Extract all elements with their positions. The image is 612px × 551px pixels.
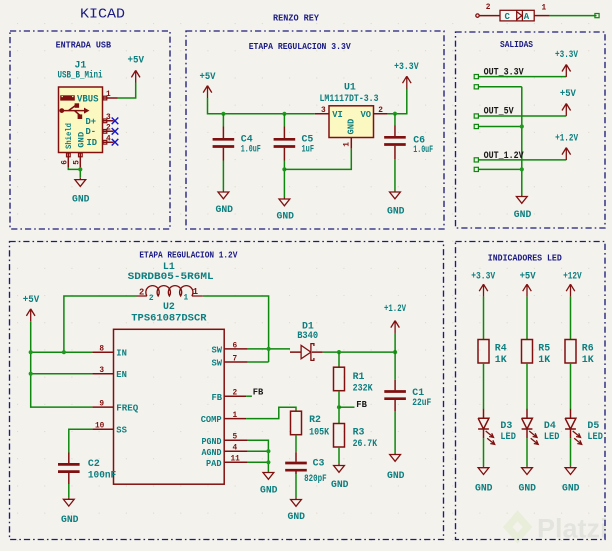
svg-text:+5V: +5V: [520, 270, 536, 281]
svg-text:1: 1: [193, 287, 198, 297]
svg-text:VBUS: VBUS: [77, 93, 99, 104]
svg-text:22uF: 22uF: [412, 397, 431, 408]
svg-text:D3: D3: [500, 420, 512, 431]
svg-text:1: 1: [233, 412, 238, 420]
svg-text:VI: VI: [332, 110, 343, 120]
svg-text:RENZO REY: RENZO REY: [273, 14, 320, 24]
svg-text:IN: IN: [116, 349, 127, 359]
svg-text:1: 1: [184, 295, 189, 303]
svg-text:KICAD: KICAD: [80, 7, 125, 23]
svg-text:C: C: [505, 12, 511, 22]
svg-text:LM1117DT-3.3: LM1117DT-3.3: [320, 93, 379, 104]
svg-text:4: 4: [106, 135, 111, 143]
svg-text:7: 7: [233, 355, 238, 363]
svg-text:SW: SW: [212, 359, 223, 369]
svg-text:ETAPA REGULACION 3.3V: ETAPA REGULACION 3.3V: [249, 42, 352, 52]
svg-text:GND: GND: [519, 482, 537, 493]
svg-text:6: 6: [62, 160, 70, 165]
svg-text:FB: FB: [212, 393, 223, 403]
svg-text:GND: GND: [61, 514, 79, 525]
svg-text:8: 8: [99, 346, 104, 354]
svg-text:232K: 232K: [353, 383, 373, 394]
svg-text:+5V: +5V: [200, 71, 216, 82]
svg-text:+3.3V: +3.3V: [555, 49, 578, 60]
svg-text:INDICADORES LED: INDICADORES LED: [488, 254, 562, 264]
svg-text:GND: GND: [277, 210, 295, 221]
svg-text:+5V: +5V: [560, 88, 576, 99]
svg-text:LED: LED: [500, 431, 516, 442]
svg-text:3: 3: [321, 107, 326, 115]
svg-text:LED: LED: [544, 431, 560, 442]
svg-text:R6: R6: [582, 343, 594, 354]
svg-text:9: 9: [99, 401, 104, 409]
svg-text:ID: ID: [87, 138, 98, 148]
svg-text:COMP: COMP: [201, 415, 222, 425]
svg-text:GND: GND: [331, 479, 349, 490]
svg-text:2: 2: [233, 389, 238, 397]
svg-text:GND: GND: [387, 205, 405, 216]
svg-text:A: A: [524, 12, 530, 22]
svg-text:GND: GND: [260, 485, 278, 496]
svg-text:GND: GND: [347, 119, 357, 135]
svg-text:R3: R3: [353, 426, 365, 437]
svg-text:2: 2: [378, 107, 383, 115]
svg-text:820pF: 820pF: [304, 473, 327, 484]
svg-text:+12V: +12V: [563, 270, 582, 281]
svg-text:TPS61087DSCR: TPS61087DSCR: [131, 313, 206, 324]
svg-text:3: 3: [106, 114, 111, 122]
svg-text:1: 1: [343, 142, 351, 147]
svg-text:R5: R5: [538, 343, 550, 354]
svg-text:LED: LED: [587, 431, 603, 442]
svg-text:1K: 1K: [495, 354, 507, 365]
svg-text:VO: VO: [361, 110, 372, 120]
svg-text:R1: R1: [353, 371, 365, 382]
svg-text:R2: R2: [309, 414, 321, 425]
svg-text:ENTRADA USB: ENTRADA USB: [56, 41, 112, 51]
svg-text:D-: D-: [86, 127, 97, 137]
svg-text:GND: GND: [387, 470, 405, 481]
svg-text:1.0uF: 1.0uF: [241, 144, 261, 155]
svg-text:2: 2: [486, 4, 491, 12]
svg-text:3: 3: [99, 367, 104, 375]
svg-text:1K: 1K: [582, 354, 594, 365]
svg-text:GND: GND: [288, 511, 306, 522]
svg-text:Shield: Shield: [65, 123, 74, 149]
svg-text:1K: 1K: [538, 354, 550, 365]
svg-text:10: 10: [95, 423, 105, 431]
svg-text:FB: FB: [356, 400, 367, 410]
svg-text:D4: D4: [544, 420, 556, 431]
svg-text:5: 5: [74, 160, 82, 165]
svg-text:+3.3V: +3.3V: [394, 61, 419, 72]
svg-text:GND: GND: [77, 132, 87, 148]
svg-text:11: 11: [231, 456, 241, 464]
svg-text:C3: C3: [313, 458, 325, 469]
svg-text:EN: EN: [116, 370, 127, 380]
svg-text:SDRDB05-5R6ML: SDRDB05-5R6ML: [128, 271, 214, 282]
svg-text:2: 2: [106, 125, 111, 133]
svg-text:PAD: PAD: [206, 459, 222, 469]
svg-text:D+: D+: [86, 117, 97, 127]
svg-text:1: 1: [106, 91, 111, 99]
svg-text:GND: GND: [562, 482, 580, 493]
svg-text:26.7K: 26.7K: [353, 438, 378, 449]
svg-text:GND: GND: [72, 193, 90, 204]
svg-text:B340: B340: [297, 330, 318, 341]
svg-text:D5: D5: [587, 420, 599, 431]
svg-text:+1.2V: +1.2V: [384, 303, 406, 314]
svg-text:GND: GND: [216, 204, 234, 215]
svg-text:GND: GND: [475, 482, 493, 493]
svg-text:GND: GND: [514, 209, 532, 220]
svg-text:105K: 105K: [309, 426, 329, 437]
svg-text:ETAPA REGULACION 1.2V: ETAPA REGULACION 1.2V: [139, 250, 238, 260]
svg-text:SS: SS: [116, 426, 127, 436]
svg-text:FREQ: FREQ: [116, 404, 139, 414]
svg-text:1uF: 1uF: [302, 144, 315, 155]
svg-text:AGND: AGND: [202, 448, 222, 458]
svg-text:+1.2V: +1.2V: [555, 132, 578, 143]
svg-text:PGND: PGND: [202, 437, 222, 447]
svg-text:FB: FB: [253, 388, 264, 398]
svg-text:USB_B_Mini: USB_B_Mini: [58, 70, 103, 81]
svg-text:U1: U1: [344, 82, 356, 93]
svg-text:5: 5: [233, 433, 238, 441]
svg-text:2: 2: [149, 295, 154, 303]
svg-text:SW: SW: [212, 346, 223, 356]
svg-text:1: 1: [542, 4, 547, 12]
svg-text:+3.3V: +3.3V: [471, 270, 495, 281]
svg-text:4: 4: [233, 444, 238, 452]
svg-text:1.0uF: 1.0uF: [413, 144, 433, 155]
svg-text:+5V: +5V: [23, 294, 40, 305]
svg-text:+5V: +5V: [128, 54, 145, 65]
svg-text:R4: R4: [495, 343, 507, 354]
svg-text:C2: C2: [88, 458, 100, 469]
svg-text:6: 6: [233, 342, 238, 350]
svg-text:SALIDAS: SALIDAS: [500, 40, 533, 50]
svg-text:U2: U2: [163, 301, 175, 312]
svg-text:100nF: 100nF: [88, 470, 116, 481]
svg-text:2: 2: [139, 288, 144, 298]
